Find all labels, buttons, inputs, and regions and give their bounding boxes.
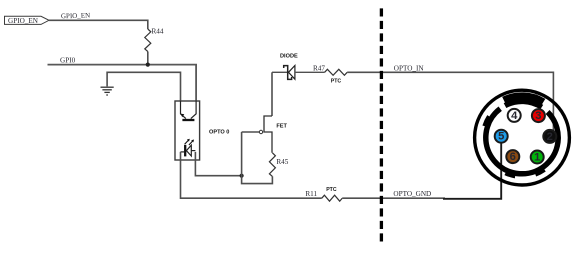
svg-text:OPTO_IN: OPTO_IN [394, 65, 425, 73]
optocoupler OPTO 0 box [175, 101, 200, 160]
resistor R44 [145, 27, 164, 51]
svg-text:R47: R47 [313, 64, 325, 72]
svg-text:2: 2 [547, 131, 553, 143]
pin 3 [532, 109, 545, 122]
svg-text:R45: R45 [276, 158, 288, 166]
connector J1 keyway tab [504, 96, 544, 102]
svg-text:4: 4 [511, 110, 518, 122]
pin 1 [531, 151, 544, 164]
wire OPTO_IN to connector pin 2 [347, 72, 553, 131]
wire GPIO_EN from flag to R44 [49, 20, 148, 29]
svg-text:OPTO 0: OPTO 0 [209, 129, 229, 135]
svg-text:GPI0: GPI0 [60, 57, 76, 65]
pin 5 [495, 130, 508, 143]
svg-text:6: 6 [510, 151, 516, 163]
svg-text:R44: R44 [152, 27, 164, 35]
resistor R11 with PTC marking [305, 187, 342, 201]
svg-text:5: 5 [498, 131, 504, 143]
wire LED anode to gate node [195, 152, 241, 176]
resistor R45 [269, 153, 288, 177]
net flag GPIO_EN [5, 16, 50, 25]
wire diode to FET drain [271, 72, 273, 116]
svg-text:DIODE: DIODE [280, 54, 298, 60]
transistor FET [242, 116, 288, 153]
svg-text:1: 1 [534, 152, 540, 164]
LED of optocoupler [181, 139, 196, 157]
connector J1 inner ring [486, 101, 558, 173]
wire GPI0 to phototransistor collector [48, 65, 197, 101]
connector J1 key tab bottom-left [505, 173, 515, 176]
wire gate loop to R45 bottom [242, 132, 273, 184]
junction on GPI0 at R44 [146, 63, 150, 67]
ground [101, 87, 114, 95]
svg-text:OPTO_GND: OPTO_GND [393, 190, 431, 198]
boundary dashed line [380, 8, 383, 242]
svg-text:GPIO_EN: GPIO_EN [8, 17, 39, 25]
phototransistor of optocoupler [181, 101, 197, 120]
diode D1 (schottky) [272, 54, 325, 80]
svg-text:FET: FET [276, 123, 287, 129]
svg-text:PTC: PTC [326, 187, 337, 193]
wire OPTO_GND [342, 197, 445, 199]
svg-text:R11: R11 [305, 190, 317, 198]
svg-text:GPIO_EN: GPIO_EN [61, 12, 90, 21]
svg-text:PTC: PTC [331, 79, 342, 85]
svg-text:3: 3 [535, 110, 541, 122]
junction gate node [240, 174, 244, 178]
wire OPTO_GND stub to connector pin 5 [443, 143, 501, 199]
wire LED cathode to OPTO_GND / R11 [181, 152, 322, 198]
pin 4 [508, 109, 521, 122]
connector J1 outer shell [475, 90, 570, 185]
pin 6 [506, 150, 519, 163]
pin 2 [543, 130, 556, 143]
resistor R47 with PTC marking [313, 64, 347, 84]
wire R44 to GPI0 node [147, 52, 149, 65]
connector J1 key tab bottom-right [535, 170, 544, 175]
connector J1 key tab left [485, 116, 490, 126]
wire emitter to ground [107, 72, 180, 101]
